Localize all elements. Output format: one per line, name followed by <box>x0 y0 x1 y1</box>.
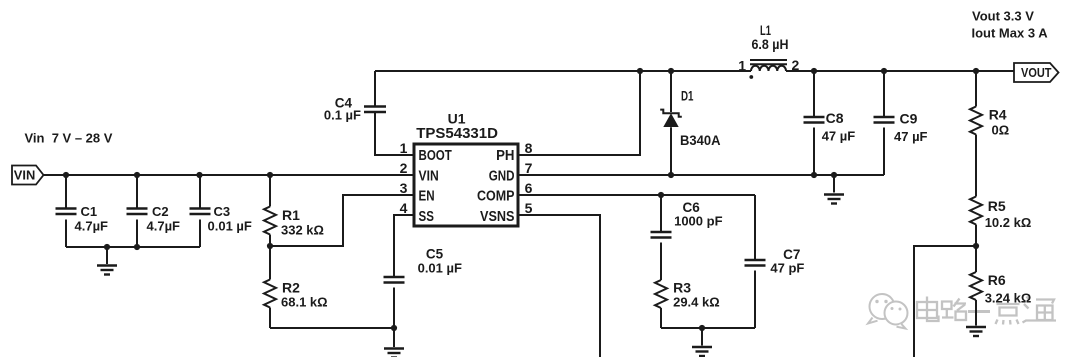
svg-text:0.01 µF: 0.01 µF <box>208 219 252 234</box>
svg-text:C1: C1 <box>81 204 98 219</box>
svg-text:47 µF: 47 µF <box>822 129 856 144</box>
svg-text:6: 6 <box>525 180 533 196</box>
svg-text:4.7µF: 4.7µF <box>147 219 181 234</box>
svg-text:68.1 kΩ: 68.1 kΩ <box>281 295 328 310</box>
svg-text:R5: R5 <box>988 198 1006 214</box>
svg-text:8: 8 <box>525 140 533 156</box>
svg-text:1: 1 <box>738 58 746 74</box>
svg-text:0.1 µF: 0.1 µF <box>324 108 361 123</box>
svg-text:29.4 kΩ: 29.4 kΩ <box>673 295 720 310</box>
svg-text:Vin 7 V – 28 V: Vin 7 V – 28 V <box>25 131 113 146</box>
svg-text:1: 1 <box>400 140 408 156</box>
svg-text:L1: L1 <box>760 23 771 38</box>
svg-text:VOUT: VOUT <box>1021 65 1052 80</box>
svg-text:R1: R1 <box>282 207 300 223</box>
svg-text:3.24 kΩ: 3.24 kΩ <box>985 291 1032 306</box>
svg-text:C5: C5 <box>426 247 444 262</box>
svg-text:2: 2 <box>400 160 408 176</box>
svg-text:COMP: COMP <box>477 189 515 205</box>
svg-text:4: 4 <box>400 200 408 216</box>
svg-text:0Ω: 0Ω <box>992 123 1010 138</box>
svg-text:GND: GND <box>489 169 515 185</box>
svg-text:C3: C3 <box>214 204 231 219</box>
svg-text:6.8 µH: 6.8 µH <box>752 37 789 52</box>
svg-text:VIN: VIN <box>14 168 36 183</box>
svg-text:EN: EN <box>419 189 435 205</box>
svg-text:TPS54331D: TPS54331D <box>416 125 498 142</box>
svg-text:2: 2 <box>792 57 800 73</box>
svg-text:C2: C2 <box>152 204 169 219</box>
svg-text:332 kΩ: 332 kΩ <box>281 223 324 238</box>
svg-text:R3: R3 <box>673 280 691 296</box>
svg-text:R6: R6 <box>988 272 1006 288</box>
svg-text:C9: C9 <box>900 111 918 127</box>
svg-text:R4: R4 <box>989 107 1007 123</box>
svg-text:4.7µF: 4.7µF <box>75 219 109 234</box>
svg-text:PH: PH <box>496 148 514 164</box>
svg-text:7: 7 <box>525 160 533 176</box>
svg-text:Iout Max 3 A: Iout Max 3 A <box>972 26 1049 41</box>
svg-text:C8: C8 <box>826 110 844 126</box>
svg-text:10.2 kΩ: 10.2 kΩ <box>985 215 1032 230</box>
svg-text:SS: SS <box>419 209 435 225</box>
svg-text:3: 3 <box>400 180 408 196</box>
svg-text:1000 pF: 1000 pF <box>674 214 722 229</box>
svg-text:BOOT: BOOT <box>419 148 452 164</box>
svg-text:5: 5 <box>525 200 533 216</box>
svg-text:VSNS: VSNS <box>480 209 515 225</box>
svg-text:47 pF: 47 pF <box>770 261 804 276</box>
svg-text:B340A: B340A <box>680 133 721 148</box>
svg-text:VIN: VIN <box>419 169 439 185</box>
svg-text:0.01 µF: 0.01 µF <box>418 261 462 276</box>
svg-text:Vout 3.3 V: Vout 3.3 V <box>972 9 1034 24</box>
svg-text:R2: R2 <box>282 280 300 296</box>
svg-text:D1: D1 <box>681 89 694 104</box>
svg-text:47 µF: 47 µF <box>894 129 928 144</box>
